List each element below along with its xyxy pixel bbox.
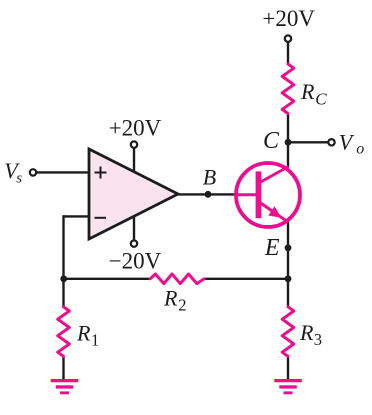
wire RC to collector through node C — [287, 113, 289, 167]
ground symbol left — [51, 379, 79, 394]
node E — [285, 244, 292, 251]
op-amp plus input symbol — [95, 167, 107, 179]
transistor base bar — [256, 171, 262, 218]
resistor RC — [282, 64, 294, 114]
svg-text:R: R — [300, 79, 315, 104]
transistor emitter lead — [261, 203, 288, 222]
svg-text:C: C — [315, 90, 327, 109]
svg-text:−20V: −20V — [109, 249, 162, 274]
resistor R3 — [282, 307, 294, 357]
svg-text:1: 1 — [91, 330, 99, 349]
svg-text:s: s — [16, 171, 22, 187]
transistor base lead — [235, 193, 257, 196]
resistor R1 — [58, 307, 70, 357]
terminal +20V op-amp — [131, 141, 137, 147]
svg-text:2: 2 — [178, 296, 186, 315]
wire R1 to ground — [62, 356, 64, 380]
wire op-amp -20V supply — [133, 215, 135, 240]
wire R2 to emitter rail — [204, 278, 289, 280]
svg-text:3: 3 — [314, 330, 322, 349]
terminal -20V op-amp — [131, 240, 137, 246]
wire op-amp +20V supply — [133, 148, 135, 172]
wire feedback vertical down left — [62, 215, 64, 279]
svg-text:E: E — [264, 235, 280, 261]
node emitter-R2-R3 junction — [285, 275, 292, 282]
wire node to R2 — [64, 278, 152, 280]
svg-text:R: R — [299, 320, 314, 345]
node C — [285, 139, 292, 146]
terminal Vo — [328, 139, 334, 145]
svg-text:+20V: +20V — [109, 116, 162, 141]
wire emitter down through node E to junction — [287, 221, 289, 308]
wire node C to Vo terminal — [288, 141, 328, 143]
svg-text:R: R — [76, 320, 91, 345]
ground symbol right — [274, 379, 302, 394]
svg-text:o: o — [356, 141, 364, 158]
wire +20V to RC — [287, 42, 289, 64]
resistor R2 — [150, 274, 204, 284]
terminal Vs — [30, 169, 36, 175]
terminal +20V collector supply — [285, 35, 291, 41]
transistor Q1 circle — [236, 163, 300, 227]
node B — [205, 191, 212, 198]
node feedback junction left — [60, 275, 67, 282]
wire R3 to ground — [287, 356, 289, 380]
wire op-amp output to transistor base — [176, 193, 237, 195]
svg-text:R: R — [163, 286, 178, 311]
svg-text:+20V: +20V — [262, 6, 315, 31]
wire node to R1 — [62, 279, 64, 307]
transistor emitter arrowhead — [268, 206, 281, 217]
wire op-amp - input horizontal — [64, 215, 91, 217]
op-amp minus input symbol — [95, 217, 107, 219]
wire Vs to op-amp + input — [37, 171, 89, 173]
svg-text:B: B — [203, 164, 216, 189]
svg-text:C: C — [263, 128, 280, 154]
transistor collector lead — [261, 167, 289, 183]
op-amp U1 — [89, 149, 178, 239]
